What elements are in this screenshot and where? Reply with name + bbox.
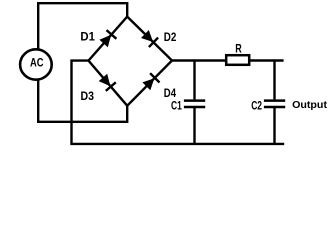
svg-text:C2: C2	[251, 101, 262, 113]
bridge diamond wires	[89, 17, 173, 106]
wire C2 bottom branch	[273, 108, 275, 144]
diode D2	[141, 30, 158, 47]
svg-text:D3: D3	[81, 91, 95, 103]
wire left vertex stub to bottom rail	[72, 61, 285, 144]
wire C1 bottom branch	[193, 108, 195, 144]
diode D4	[142, 73, 159, 90]
svg-text:D1: D1	[80, 32, 95, 44]
capacitor C2 plates	[264, 101, 285, 107]
svg-text:C1: C1	[171, 100, 182, 112]
wire AC bottom to bridge bottom vertex	[38, 81, 127, 122]
capacitor C1 plates	[184, 101, 205, 107]
wire C1 top branch	[193, 61, 195, 100]
svg-text:Output: Output	[292, 99, 327, 111]
wire C2 top branch	[273, 61, 275, 100]
diode D1	[99, 30, 116, 47]
svg-text:R: R	[235, 43, 242, 55]
wire top rail (AC top to bridge top vertex)	[38, 3, 127, 49]
wire right vertex to resistor	[172, 59, 226, 61]
svg-text:D2: D2	[164, 32, 177, 44]
AC source circle	[20, 49, 52, 79]
diode D3	[99, 74, 116, 91]
svg-text:D4: D4	[164, 88, 177, 100]
svg-text:AC: AC	[30, 55, 44, 69]
wire resistor to output stub	[249, 59, 283, 61]
resistor R	[226, 55, 249, 65]
